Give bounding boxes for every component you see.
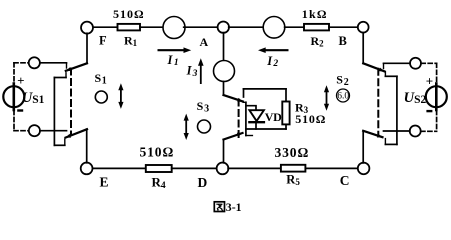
wire dashed US1 bottom vertical bbox=[13, 111, 15, 131]
switch S1 top blade bbox=[66, 63, 87, 71]
switch S3 top blade bbox=[224, 95, 243, 102]
terminal bottom-left bbox=[29, 125, 40, 136]
svg-text:VD: VD bbox=[265, 110, 282, 124]
svg-text:330Ω: 330Ω bbox=[275, 145, 310, 160]
switch S2 short-bar top horizontal bbox=[385, 75, 397, 77]
svg-text:1kΩ: 1kΩ bbox=[302, 7, 328, 21]
terminal top-right bbox=[410, 58, 421, 69]
node F bbox=[81, 22, 93, 34]
wire dashed US1 top horizontal bbox=[14, 62, 29, 64]
wire C up bbox=[362, 131, 364, 163]
resistor R4 bbox=[146, 165, 172, 172]
svg-text:510Ω: 510Ω bbox=[113, 7, 145, 21]
switch S2 short-bar vertical bbox=[396, 76, 398, 144]
current arrow I1 bbox=[158, 49, 187, 51]
diode VD triangle bbox=[249, 110, 264, 121]
diode to box bottom bbox=[255, 122, 257, 129]
svg-text:510Ω: 510Ω bbox=[140, 144, 175, 159]
wire dashed US1 bottom horizontal bbox=[14, 130, 29, 132]
svg-text:D: D bbox=[198, 175, 208, 190]
resistor R1 bbox=[118, 24, 141, 31]
wire D up bbox=[223, 140, 225, 163]
switch S3 box-left vertical bbox=[243, 89, 245, 97]
node C bbox=[358, 163, 370, 175]
switch S2 top contact line bbox=[384, 62, 411, 64]
svg-text:E: E bbox=[100, 175, 109, 190]
resistor R5 bbox=[281, 165, 306, 172]
wire F down bbox=[86, 33, 88, 63]
wire top: F to R1 bbox=[93, 26, 118, 28]
wire dashed US2 top horizontal bbox=[421, 62, 436, 64]
resistor R2 bbox=[304, 24, 329, 31]
terminal bottom-right bbox=[410, 126, 421, 137]
switch S2 short-bar bottom tick bbox=[384, 139, 386, 145]
source US1 circle bbox=[3, 86, 24, 107]
current arrow I2 bbox=[262, 49, 289, 51]
wire A down bbox=[223, 33, 225, 61]
switch S1 bottom contact line bbox=[40, 130, 67, 132]
switch S2 bottom blade bbox=[363, 131, 382, 137]
switch S1 blade tip arrowhead bbox=[66, 67, 72, 71]
switch S3 bottom blade bbox=[224, 133, 243, 140]
svg-text:+: + bbox=[17, 73, 24, 88]
svg-text:+: + bbox=[426, 73, 433, 88]
switch S1 top contact line bbox=[40, 62, 67, 64]
svg-text:510Ω: 510Ω bbox=[295, 112, 326, 126]
wire R5 to node C bbox=[305, 167, 358, 169]
source US1 vertical stroke bbox=[13, 84, 16, 111]
wire R4 to node D bbox=[172, 167, 217, 169]
wire dashed US2 top vertical bbox=[436, 63, 438, 83]
source US2 circle bbox=[426, 86, 447, 107]
wire B down bbox=[362, 33, 364, 64]
switch S1 short-bar top tick bbox=[65, 73, 67, 78]
wire dashed US1 top vertical bbox=[13, 63, 15, 83]
current arrow I3 bbox=[200, 63, 202, 84]
switch S3 bottom blade tip arrowhead bbox=[237, 133, 243, 137]
label minus US1 bbox=[17, 109, 23, 111]
node D bbox=[217, 163, 229, 175]
switch S1 short-bar bottom horizontal bbox=[54, 144, 64, 146]
wire dashed US2 bottom vertical bbox=[436, 111, 438, 132]
diode box right vertical lower bbox=[285, 124, 287, 129]
wire A to jack2 bbox=[229, 26, 264, 28]
svg-text:B: B bbox=[339, 34, 347, 48]
switch S2 bottom contact line bbox=[384, 130, 410, 132]
current jack J3 bbox=[214, 61, 235, 82]
switch S3 blade tip arrowhead bbox=[237, 98, 243, 102]
resistor R3 bbox=[282, 102, 289, 125]
diode box top wire bbox=[244, 88, 287, 90]
switch S3 inner top hook bbox=[243, 101, 246, 103]
switch S1 throw arrow bbox=[120, 88, 122, 105]
svg-text:F: F bbox=[99, 34, 107, 48]
switch S3 inner bottom hook bbox=[246, 135, 253, 137]
switch S2 top blade bbox=[363, 63, 384, 71]
diode box right vertical upper bbox=[285, 89, 287, 102]
diode box bottom wire bbox=[246, 128, 286, 130]
switch S3 throw arrow bbox=[185, 118, 187, 136]
svg-text:3-1: 3-1 bbox=[226, 200, 242, 214]
diode VD cathode bar bbox=[249, 121, 264, 123]
switch S2 throw arrow bbox=[326, 90, 328, 107]
wire D to R5 bbox=[228, 167, 281, 169]
switch S2 top contact tick bbox=[383, 64, 385, 69]
svg-text:C: C bbox=[340, 173, 350, 188]
source US2 vertical stroke bbox=[435, 84, 438, 111]
switch S2 short-bar top tick bbox=[384, 72, 386, 77]
current jack J2 bbox=[263, 17, 285, 39]
node B bbox=[358, 22, 369, 33]
wire R1 to jack1 bbox=[140, 26, 163, 28]
switch S3 gang link (dashed) bbox=[238, 100, 240, 138]
wire E up bbox=[86, 129, 88, 163]
switch S1 short-bar top horizontal bbox=[54, 77, 66, 79]
switch S1 short-bar bottom tick bbox=[64, 139, 66, 145]
switch S2 gang link (dashed) bbox=[377, 69, 379, 135]
wire R2 to node B bbox=[329, 26, 358, 28]
caption 图3-1 bbox=[214, 200, 241, 214]
switch S1 knob circle bbox=[95, 91, 107, 103]
wire jack1 to node A bbox=[184, 26, 218, 28]
node A bbox=[218, 22, 229, 33]
switch S1 bottom blade tip arrowhead bbox=[66, 134, 72, 138]
switch S2 knob circle bbox=[337, 89, 350, 102]
switch S3 knob circle bbox=[198, 120, 211, 133]
switch S2 bottom blade tip arrowhead bbox=[377, 134, 383, 138]
terminal top-left bbox=[29, 57, 40, 68]
svg-text:6.0: 6.0 bbox=[337, 92, 349, 102]
switch S2 blade tip arrowhead bbox=[379, 68, 385, 72]
current jack J1 bbox=[163, 17, 185, 39]
switch S1 short-bar vertical bbox=[53, 78, 55, 146]
label minus US2 bbox=[426, 110, 432, 112]
diode anode stub bbox=[246, 106, 256, 111]
switch S1 gang link (dashed) bbox=[70, 69, 72, 135]
svg-text:A: A bbox=[200, 35, 209, 49]
switch S1 bottom blade bbox=[66, 129, 88, 137]
wire dashed US2 bottom horizontal bbox=[421, 130, 437, 132]
switch S3 inner vertical bbox=[245, 102, 247, 135]
bottom wire: E to R4 bbox=[92, 167, 146, 169]
wire J3 to S3 pivot bbox=[223, 82, 225, 96]
wire jack2 to R2 bbox=[285, 26, 304, 28]
switch S2 short-bar bottom horizontal bbox=[385, 143, 397, 145]
node E bbox=[81, 163, 93, 175]
switch S1 top contact tick bbox=[66, 64, 68, 69]
